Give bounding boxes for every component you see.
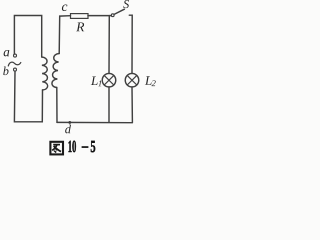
- caption figure glyph: [50, 142, 63, 155]
- wire lamp L1 to bottom: [108, 87, 110, 122]
- label a: [4, 50, 10, 56]
- wire primary top: [14, 16, 41, 58]
- wire secondary left: [59, 16, 70, 54]
- node d: [68, 121, 71, 124]
- label d: [65, 125, 71, 134]
- label L2: [145, 76, 156, 86]
- caption number 5: [91, 141, 95, 152]
- switch lever: [114, 9, 124, 14]
- label L1: [91, 76, 101, 86]
- caption dash: [82, 146, 89, 148]
- label R: [76, 22, 84, 31]
- AC source tilde: [8, 62, 20, 66]
- terminal a: [14, 54, 17, 57]
- switch S pivot: [111, 14, 114, 17]
- wire resistor to switch: [88, 15, 111, 17]
- wire lamp L2 to bottom: [131, 87, 133, 122]
- transformer secondary coil: [52, 54, 59, 88]
- wire branch L1: [108, 16, 110, 74]
- transformer primary coil: [42, 57, 48, 90]
- wire primary bottom: [14, 71, 42, 122]
- wire branch L2: [129, 15, 132, 73]
- label b: [3, 67, 8, 76]
- wire secondary bottom: [57, 121, 132, 123]
- caption number 10: [68, 141, 75, 152]
- terminal b: [14, 68, 17, 71]
- label S: [123, 0, 129, 8]
- lamp L2: [125, 73, 139, 87]
- wire secondary left lower: [56, 88, 58, 123]
- resistor R: [71, 14, 89, 19]
- lamp L1: [102, 73, 116, 87]
- label c: [62, 5, 67, 11]
